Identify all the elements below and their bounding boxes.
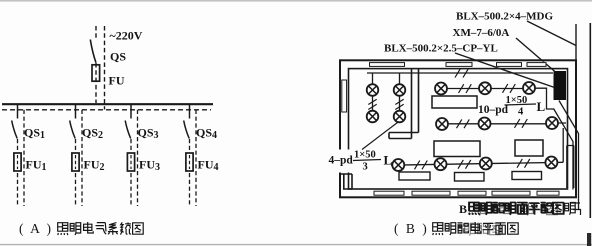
wire row3 riser to box <box>562 128 564 163</box>
lamp row2 3 <box>546 117 558 129</box>
bus dashed neutral <box>2 109 211 111</box>
svg-text:10–pd: 10–pd <box>478 104 509 116</box>
svg-text:1×50: 1×50 <box>354 150 376 161</box>
lamp row1 1 <box>435 83 447 95</box>
lamp row3 3 <box>480 158 492 170</box>
frame top gray line <box>0 0 592 2</box>
wire supply neutral dashed <box>104 26 106 110</box>
desk rect 3 <box>515 140 543 156</box>
wire branch3 stub <box>130 104 132 119</box>
wire marks row1 a <box>459 84 472 93</box>
wire row2 <box>448 122 566 125</box>
wire branch4 stub <box>189 104 191 119</box>
leader from MDG label <box>527 21 576 46</box>
wire branch2 neutral dashed <box>81 110 83 206</box>
wire branch2 dashed <box>75 139 77 206</box>
wire lamp string 2 <box>399 73 401 111</box>
window bottom 3 <box>458 191 486 196</box>
distribution box XM (black) <box>554 71 567 100</box>
wire supply phase dashed <box>95 26 97 103</box>
wire marks row2 b <box>515 119 528 128</box>
desk rect 5 <box>455 173 485 182</box>
branch 4 <box>184 104 196 206</box>
wire marks row3 a <box>415 161 428 170</box>
wire branch1 neutral dashed <box>23 110 25 206</box>
interior partition walls of left room <box>389 69 419 139</box>
frame bottom gray line <box>0 244 592 246</box>
switch QS1 blade <box>12 121 18 139</box>
desk rect 4 <box>399 172 430 180</box>
wall partition bottom of left room <box>389 133 419 139</box>
svg-text:( A ): ( A ) <box>19 221 53 236</box>
walls <box>340 60 576 197</box>
svg-text:XM–7–6/0A: XM–7–6/0A <box>453 27 510 39</box>
lamp row2 2 <box>479 118 491 130</box>
window bottom 5 <box>537 191 559 196</box>
svg-text:( B ): ( B ) <box>394 221 429 236</box>
fuse FU <box>92 65 100 81</box>
lamp row1 3 <box>523 82 535 94</box>
lamp row3 1 <box>392 159 404 171</box>
fuse FU2 <box>72 153 79 171</box>
leader from CP-YL label <box>455 53 556 88</box>
svg-text:QS: QS <box>110 50 126 64</box>
lamp left-room 1 <box>367 84 379 96</box>
desk rect 1 <box>432 96 477 108</box>
riser line right outer <box>589 23 591 218</box>
wire branch1 dashed <box>17 139 19 206</box>
caption B ghost overprint <box>465 223 501 235</box>
wall partition vertical <box>412 69 419 139</box>
wire lamp string 1 <box>372 73 374 111</box>
riser line right inner <box>575 24 577 60</box>
svg-text:BLX–500.2×4–MDG: BLX–500.2×4–MDG <box>456 11 553 23</box>
svg-text:L: L <box>537 99 546 114</box>
wire branch4 dashed <box>189 139 191 206</box>
switch QS3 blade <box>125 121 131 139</box>
wire marks row2 a <box>457 119 470 128</box>
desk rect 6 <box>512 172 542 180</box>
svg-text:3: 3 <box>363 162 368 173</box>
window bottom 1 <box>374 191 404 196</box>
lamp row2 1 <box>436 118 448 130</box>
window top 2 <box>446 62 472 67</box>
window top 1 <box>370 62 405 67</box>
window top 4 <box>527 62 546 67</box>
wire row3 <box>391 162 563 165</box>
lamp left-room 4 <box>394 111 406 123</box>
wire branch1 stub <box>17 104 19 119</box>
wire branch3 dashed <box>130 139 132 206</box>
wire marks string 1 <box>368 99 376 109</box>
wire marks row1 b <box>503 84 516 93</box>
wall inner rectangle <box>349 69 568 189</box>
svg-text:~220V: ~220V <box>110 29 143 43</box>
garbled overprint caption <box>459 202 575 216</box>
window bottom 2 <box>412 191 450 196</box>
svg-text:FU: FU <box>109 74 125 88</box>
wire marks row3 c <box>517 159 530 168</box>
svg-text:4: 4 <box>518 107 524 118</box>
circuit wire top run <box>367 72 553 74</box>
fuse FU4 <box>186 153 193 171</box>
window bottom 4 <box>492 191 530 196</box>
ink mark bottom right edge <box>587 233 591 246</box>
svg-text:4–pd: 4–pd <box>329 155 354 167</box>
wall niche right side <box>567 146 574 189</box>
wire marks on top run <box>455 69 468 78</box>
leader from 4-pd label to lamp <box>362 123 398 150</box>
svg-text:BLX–500.2×2.5–CP–YL: BLX–500.2×2.5–CP–YL <box>384 43 498 55</box>
wire branch3 neutral dashed <box>137 110 139 206</box>
window top 3 <box>497 62 522 67</box>
corner marks bottom right <box>571 203 581 215</box>
bus solid phase <box>2 103 213 105</box>
fuse FU1 <box>14 153 21 171</box>
wire row1 <box>447 88 554 109</box>
branch 3 <box>125 104 137 206</box>
door opening left wall <box>339 150 351 173</box>
svg-text:B: B <box>459 202 467 216</box>
wire branch4 neutral dashed <box>195 110 197 206</box>
window left wall <box>341 80 347 112</box>
wire marks row3 b <box>458 160 471 169</box>
leader pair from box to caption <box>554 101 579 210</box>
wire marks string 2 <box>395 99 403 109</box>
desk rect 2 <box>434 141 480 157</box>
branch 2 <box>70 104 82 206</box>
switch QS blade <box>90 40 96 63</box>
wall outer rectangle <box>340 60 576 197</box>
left room lamp string wires <box>373 73 400 111</box>
lamp row3 2 <box>435 158 447 170</box>
fuse FU3 <box>127 153 134 171</box>
switch QS4 blade <box>184 121 190 139</box>
lamp left-room 3 <box>367 111 379 123</box>
svg-text:L: L <box>384 153 393 168</box>
branch 1 <box>12 104 24 206</box>
lamp left-room 2 <box>394 84 406 96</box>
leader from XM label to box <box>516 38 556 73</box>
wire branch2 stub <box>75 104 77 119</box>
switch QS2 blade <box>70 121 76 139</box>
lamp row1 2 <box>479 82 491 94</box>
wall pier bottom-left corner <box>340 174 352 189</box>
lamp row3 4 <box>545 157 557 169</box>
